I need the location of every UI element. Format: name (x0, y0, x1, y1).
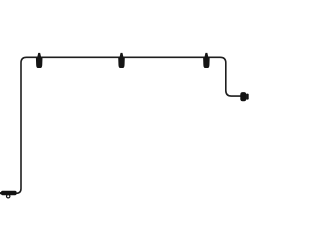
bottom-left connector (0, 191, 17, 198)
socket S3 (203, 53, 210, 68)
socket S2 (118, 53, 125, 68)
wire (main cable run: bottom-left connector up, across top, down right to plug) (16, 57, 242, 193)
right power plug (240, 92, 248, 101)
socket S1 (36, 53, 43, 68)
